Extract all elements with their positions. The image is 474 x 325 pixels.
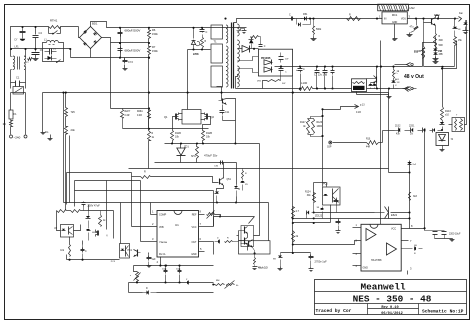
- tap wire upper: [238, 57, 259, 61]
- wire: [223, 163, 225, 179]
- junction: [10, 48, 12, 50]
- wire: [75, 190, 214, 192]
- terminal N: [24, 135, 27, 138]
- junction: [164, 265, 166, 267]
- junction: [331, 87, 333, 89]
- svg-text:C: C: [289, 14, 291, 17]
- svg-text:CY: CY: [14, 40, 18, 42]
- junction: [309, 18, 311, 20]
- wire: [217, 87, 222, 101]
- wire: [408, 18, 455, 20]
- svg-text:48ch 3.3: 48ch 3.3: [258, 267, 268, 270]
- wire: [201, 113, 205, 115]
- wire: [353, 227, 361, 229]
- svg-text:RV: RV: [3, 123, 7, 126]
- resistor R12B 10k: [202, 129, 213, 144]
- wire: [65, 117, 67, 127]
- svg-text:COMP: COMP: [159, 214, 167, 217]
- resistor R3: [201, 35, 207, 50]
- wire: [314, 212, 375, 214]
- resistor R30: [141, 171, 151, 179]
- zener ZD21: [234, 185, 241, 197]
- resistor SH1: [191, 144, 199, 163]
- wire: [187, 50, 189, 110]
- diode D130: [395, 126, 402, 136]
- wire: [223, 120, 236, 122]
- wire: [66, 255, 68, 260]
- wire: [88, 205, 90, 211]
- wire: [293, 241, 361, 245]
- svg-text:Schematic No:1P: Schematic No:1P: [422, 309, 464, 315]
- wire: [11, 27, 49, 49]
- wire: [35, 27, 37, 35]
- wire: [90, 49, 92, 58]
- opto PC1 transistor: [128, 250, 141, 257]
- svg-text:PC2: PC2: [323, 183, 328, 186]
- svg-text:150k: 150k: [152, 49, 158, 53]
- wire: [65, 135, 67, 211]
- wire: [379, 142, 383, 144]
- capacitor C40: [334, 198, 339, 213]
- diode D60: [86, 211, 91, 225]
- resistor R48: [292, 231, 299, 243]
- junction: [148, 57, 150, 59]
- svg-text:LF1: LF1: [15, 46, 20, 49]
- wire: [402, 240, 409, 242]
- junction pair top: [321, 115, 323, 117]
- junction: [424, 129, 426, 131]
- junction: [196, 142, 198, 144]
- svg-text:24k: 24k: [71, 128, 76, 132]
- wire: [391, 212, 410, 214]
- zener ZD45: [241, 179, 249, 191]
- wire: [148, 253, 150, 255]
- wire: [424, 131, 426, 229]
- junction: [408, 171, 410, 173]
- wire: [268, 203, 270, 241]
- terminal 48V-: [399, 87, 417, 91]
- junction: [202, 142, 204, 144]
- svg-text:MC1: MC1: [392, 13, 398, 17]
- junction: [324, 66, 326, 68]
- svg-text:BM: BM: [216, 280, 219, 282]
- svg-text:Q2: Q2: [211, 115, 215, 119]
- junction: [224, 18, 226, 20]
- diode D25: [143, 288, 157, 295]
- wire: [148, 58, 150, 131]
- junction: [392, 66, 394, 68]
- transistor Q1: [164, 113, 178, 121]
- junction: [216, 201, 218, 203]
- wire: [236, 75, 238, 89]
- svg-text:R124: R124: [305, 192, 311, 194]
- resistor R9 1k: [148, 131, 155, 141]
- opto PC2: [323, 183, 341, 206]
- wire: [150, 203, 152, 215]
- capacitor C21: [164, 266, 168, 283]
- junction: [119, 42, 121, 44]
- junction: [415, 18, 417, 20]
- wire: [313, 88, 352, 90]
- wire: [120, 28, 122, 58]
- svg-text:Q: Q: [106, 235, 108, 237]
- svg-text:2200 10uF: 2200 10uF: [449, 233, 461, 236]
- wire: [66, 173, 68, 205]
- junction: [292, 243, 294, 245]
- capacitor C30: [82, 202, 101, 211]
- junction: [187, 92, 189, 94]
- PWM IC U1: [157, 211, 199, 258]
- op-amp U2 HA17358: [361, 224, 401, 271]
- svg-text:C: C: [206, 31, 208, 34]
- junction: [454, 18, 456, 20]
- wire: [281, 252, 311, 254]
- resistor R102 1k: [393, 67, 400, 79]
- junction: [316, 87, 318, 89]
- svg-text:2700v 1uF: 2700v 1uF: [315, 260, 328, 264]
- svg-text:R7: R7: [152, 45, 156, 49]
- wire: [217, 186, 224, 191]
- wire: [91, 22, 121, 28]
- wire: [236, 88, 299, 90]
- wire: [155, 162, 237, 164]
- svg-text:200V 47uF: 200V 47uF: [88, 205, 101, 208]
- wire: [236, 197, 238, 203]
- svg-text:R10: R10: [366, 139, 371, 141]
- wire: [199, 214, 205, 216]
- opto PC3: [111, 244, 130, 264]
- svg-text:225K: 225K: [193, 53, 199, 56]
- wire: [215, 215, 221, 217]
- wire: [292, 77, 294, 93]
- wire: [74, 225, 81, 231]
- svg-text:x10: x10: [445, 114, 450, 117]
- svg-text:R26A: R26A: [137, 110, 143, 113]
- svg-text:RTH1: RTH1: [50, 19, 58, 23]
- wire: [63, 93, 65, 203]
- wire: [357, 94, 389, 96]
- svg-text:C4: C4: [39, 31, 43, 35]
- transistor Q100: [367, 76, 377, 84]
- ground output return: [387, 95, 392, 99]
- driver box: [241, 226, 254, 247]
- wire: [293, 218, 410, 220]
- shunt R100: [352, 79, 367, 92]
- wire: [128, 283, 130, 293]
- svg-text:R127: R127: [300, 122, 306, 124]
- resistor pair R145 R146: [452, 115, 465, 132]
- svg-text:R126: R126: [317, 122, 323, 124]
- heatsink HS2: [378, 4, 415, 11]
- wire: [141, 241, 157, 243]
- capacitor C101: [315, 67, 320, 89]
- zener ZD123: [307, 210, 323, 218]
- svg-text:p.13: p.13: [360, 105, 365, 107]
- capacitor C5 bottom: [118, 47, 141, 53]
- transistor Q50 D882: [432, 14, 441, 26]
- junction: [148, 57, 150, 59]
- wire: [121, 27, 247, 29]
- wire: [134, 266, 137, 272]
- wire: [70, 49, 72, 58]
- wire: [165, 128, 209, 130]
- wire: [201, 119, 205, 121]
- wire: [254, 144, 260, 236]
- wire: [353, 253, 361, 255]
- wire: [313, 183, 315, 202]
- diode D131: [405, 126, 416, 136]
- svg-text:VFB: VFB: [159, 226, 164, 229]
- wire: [199, 251, 205, 253]
- svg-text:560k: 560k: [316, 28, 322, 31]
- wire: [275, 66, 423, 68]
- wire: [203, 117, 211, 129]
- junction: [192, 48, 194, 50]
- resistor R31: [225, 238, 239, 243]
- svg-text:PC1: PC1: [128, 250, 133, 252]
- snubber D9 C8: [249, 39, 266, 48]
- resistor R11B 10k: [171, 129, 182, 144]
- junction: [178, 265, 180, 267]
- resistor R7: [148, 43, 159, 58]
- wire: [449, 124, 453, 126]
- svg-text:16R0: 16R0: [317, 126, 323, 128]
- svg-text:PR100B: PR100B: [261, 57, 271, 60]
- wire: [123, 128, 165, 130]
- wire: [131, 173, 133, 177]
- varistor VAR1: [11, 87, 26, 99]
- junction: [292, 222, 294, 224]
- capacitor C23 1uF: [147, 255, 157, 265]
- svg-text:GND: GND: [191, 253, 197, 256]
- svg-text:R6: R6: [152, 28, 156, 32]
- svg-text:BD1: BD1: [92, 22, 98, 26]
- svg-text:OUT: OUT: [191, 241, 197, 244]
- wire: [11, 48, 71, 50]
- wire: [140, 181, 142, 242]
- wire: [213, 242, 215, 255]
- junction: [165, 265, 167, 267]
- svg-text:ZD: ZD: [245, 184, 248, 186]
- wire: [151, 214, 157, 216]
- wire: [214, 216, 255, 218]
- junction: [148, 92, 150, 94]
- earth ground PE: [45, 131, 53, 141]
- svg-text:0.1R: 0.1R: [356, 112, 361, 114]
- svg-text:IN: IN: [384, 18, 387, 21]
- junction: [376, 87, 378, 89]
- resistor RV1: [3, 121, 13, 127]
- transistor Q60: [96, 230, 109, 238]
- capacitor C2: [200, 28, 208, 35]
- capacitor CY2: [123, 58, 134, 71]
- junction: [219, 215, 221, 217]
- junction: [424, 227, 426, 229]
- svg-text:L100: L100: [301, 81, 308, 85]
- svg-text:HS2: HS2: [410, 6, 416, 10]
- diode D110: [369, 83, 373, 89]
- wire: [249, 217, 255, 224]
- svg-text:30R: 30R: [439, 40, 444, 42]
- wire: [394, 24, 396, 37]
- diode D30: [215, 238, 220, 244]
- wire: [380, 41, 382, 225]
- resistor R140: [414, 19, 425, 67]
- diode D101: [264, 60, 272, 66]
- wire: [106, 181, 108, 230]
- wire: [326, 183, 328, 187]
- junction: [69, 48, 71, 50]
- wire: [148, 141, 150, 169]
- wire: [179, 113, 183, 115]
- junction: [376, 66, 378, 68]
- diode D102: [264, 67, 272, 73]
- junction: [280, 66, 282, 68]
- zener D80: [407, 162, 417, 166]
- svg-text:E522: E522: [391, 213, 398, 217]
- resistor R29: [215, 280, 225, 286]
- resistor R60: [57, 210, 67, 213]
- wire: [293, 222, 331, 224]
- wire: [111, 42, 149, 44]
- wire: [79, 27, 80, 38]
- drain link: [182, 110, 201, 125]
- capacitor C50 47u: [407, 19, 419, 37]
- wire: [247, 234, 249, 238]
- junction: [148, 128, 150, 130]
- diode D111: [373, 83, 377, 89]
- svg-text:1uF: 1uF: [152, 258, 157, 261]
- wire: [214, 284, 215, 286]
- svg-text:21S2: 21S2: [395, 126, 401, 128]
- svg-text:ADJ: ADJ: [395, 78, 399, 81]
- wire: [199, 226, 214, 228]
- resistor R61: [71, 210, 81, 213]
- diode D132: [418, 128, 426, 133]
- junction: [331, 66, 333, 68]
- wire: [65, 93, 67, 108]
- junction: [119, 57, 121, 59]
- junction: [159, 265, 161, 267]
- junction: [234, 142, 236, 144]
- wire: [341, 107, 359, 110]
- resistor R5 7k5: [65, 108, 76, 117]
- wire: [213, 191, 215, 227]
- svg-text:C6P: C6P: [327, 147, 332, 149]
- capacitor C36: [214, 161, 224, 168]
- wire: [247, 245, 249, 251]
- trimmer VR1: [130, 272, 141, 282]
- svg-text:ZD123: ZD123: [315, 215, 323, 218]
- wire: [333, 142, 367, 144]
- svg-text:GND: GND: [392, 21, 398, 24]
- connector arrow 13: [355, 105, 366, 115]
- junction: [299, 66, 301, 68]
- wire: [132, 176, 141, 178]
- wire: [388, 93, 390, 169]
- svg-text:47u: 47u: [410, 26, 415, 29]
- ground MC1: [393, 37, 398, 41]
- junction: [321, 115, 323, 117]
- svg-text:RL CL: RL CL: [159, 253, 166, 256]
- capacitor C106: [279, 53, 290, 63]
- resistor R143 x10: [441, 107, 452, 121]
- junction: [119, 27, 121, 29]
- capacitor C11: [220, 105, 230, 121]
- transistor Q2: [205, 113, 215, 121]
- zener ZD51: [453, 19, 461, 37]
- title block: [315, 280, 467, 315]
- resistor R71 3R3: [253, 255, 258, 270]
- svg-text:C1: C1: [16, 76, 20, 80]
- svg-text:680uF/200V: 680uF/200V: [125, 29, 141, 33]
- svg-text:R22Y: R22Y: [125, 111, 131, 113]
- junction pair bottom: [321, 135, 323, 137]
- wire: [129, 168, 389, 170]
- ground C9: [33, 57, 39, 61]
- ground mid: [41, 131, 46, 135]
- wire: [213, 217, 215, 227]
- wire: [424, 229, 426, 231]
- wire: [102, 38, 111, 109]
- wire: [121, 57, 149, 59]
- svg-text:0.4R: 0.4R: [125, 115, 130, 117]
- junction: [324, 87, 326, 89]
- thermistor RTh1: [49, 19, 61, 29]
- wire: [67, 259, 120, 261]
- svg-text:ZD1: ZD1: [184, 145, 189, 148]
- svg-text:Q51: Q51: [227, 179, 232, 181]
- junction: [299, 87, 301, 89]
- capacitor C70: [309, 253, 314, 272]
- wire: [113, 211, 115, 239]
- wire: [238, 48, 243, 50]
- opto U5: [54, 225, 73, 238]
- wire: [56, 210, 58, 212]
- svg-text:1N: 1N: [410, 134, 413, 136]
- wire: [409, 161, 411, 229]
- wire: [435, 37, 437, 41]
- wire: [43, 92, 389, 94]
- resistor R47 4.7: [292, 207, 300, 219]
- junction: [178, 281, 180, 283]
- wire: [61, 26, 79, 28]
- svg-text:0.4R: 0.4R: [137, 115, 142, 117]
- wire: [236, 163, 238, 185]
- wire: [134, 265, 214, 267]
- resistor R54 560k: [311, 19, 322, 41]
- zener ZD60: [86, 225, 97, 241]
- wire: [435, 238, 453, 240]
- wire: [82, 241, 84, 245]
- svg-text:Traced by Cor: Traced by Cor: [316, 308, 352, 314]
- wire: [330, 205, 332, 223]
- wire: [42, 93, 44, 131]
- wire: [356, 92, 358, 95]
- diode D40: [320, 207, 324, 219]
- junction: [321, 135, 323, 137]
- wire: [388, 169, 390, 173]
- junction: [280, 66, 282, 68]
- junction: [437, 18, 439, 20]
- wire: [67, 172, 132, 174]
- rectifier module PR100B: [258, 49, 292, 76]
- junction: [34, 26, 36, 28]
- junction: [316, 66, 318, 68]
- diode D52b: [297, 19, 311, 27]
- wire: [465, 21, 467, 125]
- triac Q6: [191, 28, 199, 50]
